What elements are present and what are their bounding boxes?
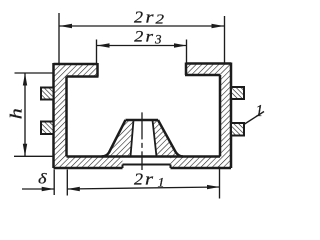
- outline: right flange inner edge: [185, 63, 188, 76]
- svg-text:r: r: [145, 170, 154, 189]
- vessel right wall + flange + right bottom plate (hatched section): [171, 64, 232, 169]
- outline: left flange top: [54, 63, 98, 66]
- svg-text:2: 2: [134, 7, 144, 26]
- dimension delta: left arrowhead (pointing right): [42, 187, 55, 191]
- outline: left wall outer edge: [52, 63, 55, 168]
- outline: recess right step: [170, 165, 172, 169]
- outline: hub top: [126, 119, 159, 122]
- dimension delta: left extension line: [53, 170, 55, 196]
- svg-text:2: 2: [156, 12, 165, 27]
- leader line to item 1: [244, 112, 264, 125]
- outline: cavity floor (plate top surface): [67, 155, 221, 158]
- outline: left flange inner edge: [96, 63, 99, 77]
- outline: left flange bottom: [67, 75, 99, 78]
- dimension 2r1: line: [67, 187, 219, 189]
- dimension 2r2: right extension line: [224, 16, 226, 63]
- svg-text:3: 3: [154, 31, 162, 46]
- outline: recess left step: [122, 165, 124, 169]
- dimension 2r2: left extension line: [58, 13, 60, 64]
- outline: right wall outer edge: [230, 63, 233, 169]
- outline: recess bottom: [123, 164, 171, 166]
- svg-text:δ: δ: [38, 172, 48, 188]
- dimension 2r3: line: [97, 45, 187, 47]
- dimension h: vertical line: [24, 73, 26, 156]
- dimension 2r2: line: [60, 25, 225, 27]
- svg-text:2: 2: [134, 170, 143, 189]
- dimension 2r3: right extension line: [186, 40, 188, 64]
- central hub left half (hatched section): [107, 120, 134, 157]
- outline: hub bore left edge: [131, 120, 134, 157]
- outline: right flange bottom: [185, 74, 220, 77]
- outline: plate bottom left: [54, 167, 123, 170]
- svg-text:h: h: [7, 108, 26, 119]
- dimension 2r3: left extension line: [96, 40, 98, 65]
- outline: hub bore right edge: [153, 120, 157, 157]
- lug lower-right: [231, 123, 244, 136]
- dimension h: bottom arrowhead: [23, 144, 27, 157]
- outline: left wall inner edge: [65, 77, 68, 157]
- dimension 2r2: left arrowhead: [60, 24, 73, 28]
- lug upper-left (item 1, hatched opposite): [41, 88, 54, 100]
- dimension 2r1: right arrowhead: [207, 185, 220, 189]
- outline: right flange top: [186, 62, 231, 65]
- svg-text:r: r: [146, 29, 154, 46]
- dimension delta: right arrowhead (pointing left, start of 2r1 line): [67, 187, 80, 191]
- dimension h: top reference line: [15, 72, 53, 74]
- svg-text:r: r: [146, 7, 154, 26]
- vessel left wall + flange + left bottom plate (hatched section): [54, 64, 123, 168]
- dimension h: top arrowhead: [23, 73, 27, 86]
- dimension delta: left tail line: [22, 188, 54, 190]
- lug upper-right: [231, 87, 244, 99]
- outline: plate bottom right: [171, 167, 232, 170]
- label 2r2: [134, 7, 164, 26]
- dimension delta: right extension line: [66, 170, 68, 196]
- outline: hub left slope with foot fillet: [102, 120, 126, 157]
- dimension 2r2: right arrowhead: [212, 24, 225, 28]
- svg-text:1: 1: [158, 174, 165, 189]
- svg-text:2: 2: [134, 29, 143, 46]
- label 2r3: [134, 29, 162, 47]
- svg-text:1: 1: [256, 101, 264, 120]
- outline: hub right slope with foot fillet: [158, 120, 183, 157]
- dimension 2r3: right arrowhead: [174, 43, 187, 47]
- dimension h: bottom reference line: [14, 155, 54, 157]
- lug lower-left: [41, 122, 54, 135]
- outline: right wall inner edge: [219, 75, 222, 157]
- dimension 2r1: right extension line: [219, 167, 221, 199]
- dimension 2r3: left arrowhead: [97, 43, 110, 47]
- centerline of hub (dash-dot): [141, 112, 143, 170]
- label 2r1: [134, 170, 165, 190]
- central hub right half (hatched section): [153, 120, 178, 157]
